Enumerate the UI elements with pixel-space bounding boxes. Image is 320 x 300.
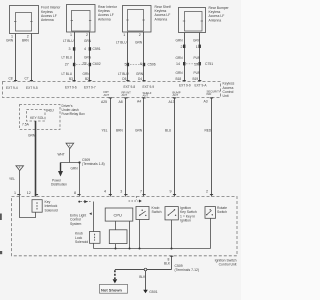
svg-text:LT BLU: LT BLU xyxy=(62,56,73,60)
svg-text:A3: A3 xyxy=(204,99,208,103)
svg-text:KEY SOL: KEY SOL xyxy=(30,116,44,120)
svg-text:BLK: BLK xyxy=(139,275,146,279)
svg-text:EXT 9-A: EXT 9-A xyxy=(195,83,208,87)
svg-text:Antenna: Antenna xyxy=(98,17,111,21)
svg-text:9: 9 xyxy=(170,189,172,193)
svg-text:BLU: BLU xyxy=(165,129,172,133)
svg-text:C8: C8 xyxy=(9,77,13,81)
svg-text:Switch: Switch xyxy=(152,210,162,214)
svg-text:GRN: GRN xyxy=(28,134,36,138)
svg-text:GRN: GRN xyxy=(176,71,184,75)
svg-text:BRN: BRN xyxy=(116,129,123,133)
svg-text:A: A xyxy=(19,166,21,170)
svg-text:PUR: PUR xyxy=(194,56,201,60)
svg-text:GRN: GRN xyxy=(71,166,79,170)
svg-text:C751: C751 xyxy=(205,62,213,66)
svg-text:A4: A4 xyxy=(137,99,141,103)
svg-text:GRN: GRN xyxy=(176,56,184,60)
svg-text:27: 27 xyxy=(65,62,69,66)
svg-text:ANT: ANT xyxy=(173,93,179,97)
svg-text:RED: RED xyxy=(205,129,212,133)
svg-text:EXT 9-6: EXT 9-6 xyxy=(65,85,77,89)
svg-text:Antenna: Antenna xyxy=(155,17,168,21)
svg-text:B2: B2 xyxy=(85,77,89,81)
svg-text:GRN: GRN xyxy=(136,72,144,76)
svg-text:YEL: YEL xyxy=(9,177,15,181)
svg-text:ANT: ANT xyxy=(143,93,149,97)
svg-text:LT BLU: LT BLU xyxy=(63,39,74,43)
svg-text:6: 6 xyxy=(140,62,142,66)
svg-text:B3: B3 xyxy=(69,77,73,81)
svg-text:4: 4 xyxy=(84,47,86,51)
svg-text:(Terminals 1-8): (Terminals 1-8) xyxy=(82,162,105,166)
svg-text:GRN: GRN xyxy=(135,40,143,44)
svg-text:GRN: GRN xyxy=(176,38,184,42)
svg-text:1: 1 xyxy=(196,45,198,49)
svg-text:14: 14 xyxy=(176,62,180,66)
svg-text:Distribution: Distribution xyxy=(51,183,67,187)
svg-text:84DJ: 84DJ xyxy=(46,108,54,112)
svg-text:7.5A: 7.5A xyxy=(22,122,30,126)
svg-text:EXT 9-5: EXT 9-5 xyxy=(26,86,38,90)
svg-text:Antenna: Antenna xyxy=(209,18,222,22)
svg-text:LT BLU: LT BLU xyxy=(118,72,129,76)
svg-text:Not Shown: Not Shown xyxy=(101,287,122,292)
svg-text:D4: D4 xyxy=(138,77,142,81)
svg-text:System: System xyxy=(70,222,81,226)
svg-text:IND: IND xyxy=(207,92,212,96)
svg-text:2: 2 xyxy=(86,33,88,37)
svg-text:4: 4 xyxy=(104,189,106,193)
svg-text:LT BLU: LT BLU xyxy=(62,72,73,76)
svg-text:G501: G501 xyxy=(149,290,157,294)
svg-text:Fuse/Relay Box: Fuse/Relay Box xyxy=(62,112,86,116)
svg-text:3: 3 xyxy=(69,47,71,51)
svg-text:C602: C602 xyxy=(93,62,101,66)
svg-text:EXT 9-8: EXT 9-8 xyxy=(124,85,136,89)
svg-text:(Terminals 7-12): (Terminals 7-12) xyxy=(175,268,200,272)
svg-text:BLK: BLK xyxy=(164,262,171,266)
svg-text:1: 1 xyxy=(123,33,125,37)
svg-text:C7: C7 xyxy=(25,77,29,81)
svg-text:12: 12 xyxy=(27,191,31,195)
svg-text:Switch: Switch xyxy=(217,210,227,214)
svg-text:D5: D5 xyxy=(122,77,126,81)
svg-text:C506: C506 xyxy=(148,62,156,66)
svg-text:Solenoid: Solenoid xyxy=(75,240,88,244)
svg-text:EXT 9-9: EXT 9-9 xyxy=(179,83,191,87)
svg-text:A: A xyxy=(69,143,71,147)
svg-text:5: 5 xyxy=(125,62,127,66)
svg-text:CPU: CPU xyxy=(114,212,123,217)
svg-text:BRN: BRN xyxy=(22,39,29,43)
svg-text:ANT: ANT xyxy=(122,93,128,97)
svg-text:EXT 9-7: EXT 9-7 xyxy=(84,85,96,89)
svg-text:Control Unit: Control Unit xyxy=(219,263,237,267)
svg-text:GRN: GRN xyxy=(6,39,14,43)
svg-text:A25: A25 xyxy=(101,100,107,104)
svg-text:3: 3 xyxy=(120,189,122,193)
svg-text:Unit: Unit xyxy=(223,94,229,98)
svg-text:7: 7 xyxy=(140,189,142,193)
svg-text:2: 2 xyxy=(139,33,141,37)
svg-text:A8: A8 xyxy=(119,100,123,104)
svg-text:B19: B19 xyxy=(193,77,199,81)
svg-text:Solenoid: Solenoid xyxy=(45,208,58,212)
svg-text:EXT 9-4: EXT 9-4 xyxy=(6,86,18,90)
svg-text:LT BLU: LT BLU xyxy=(116,40,127,44)
svg-text:B18: B18 xyxy=(176,77,182,81)
svg-text:EXT 9-9: EXT 9-9 xyxy=(143,85,155,89)
svg-text:2: 2 xyxy=(181,45,183,49)
svg-text:8: 8 xyxy=(74,191,76,195)
svg-text:Antenna: Antenna xyxy=(41,18,54,22)
svg-text:19: 19 xyxy=(194,63,198,67)
svg-text:28: 28 xyxy=(83,61,87,65)
svg-text:GRN: GRN xyxy=(83,72,91,76)
svg-text:PUR: PUR xyxy=(194,71,201,75)
svg-text:2: 2 xyxy=(206,189,208,193)
svg-text:WHT: WHT xyxy=(58,153,65,157)
svg-text:1: 1 xyxy=(70,33,72,37)
svg-text:1: 1 xyxy=(14,191,16,195)
svg-text:GRN: GRN xyxy=(84,39,92,43)
svg-text:A13: A13 xyxy=(169,100,175,104)
svg-text:GRN: GRN xyxy=(84,56,92,60)
svg-text:Ignition: Ignition xyxy=(180,219,191,223)
svg-text:GRN: GRN xyxy=(135,129,143,133)
svg-text:ANT: ANT xyxy=(104,93,110,97)
svg-text:GRY: GRY xyxy=(193,38,201,42)
svg-text:C591: C591 xyxy=(93,47,101,51)
svg-text:YEL: YEL xyxy=(102,129,108,133)
